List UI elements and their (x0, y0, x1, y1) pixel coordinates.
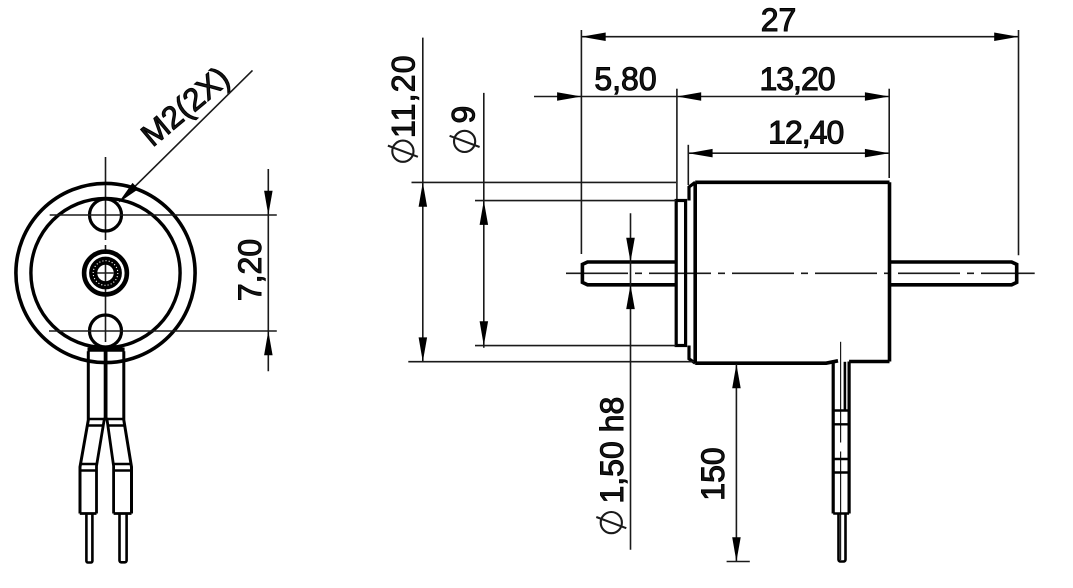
dia symbol of Ø9 (454, 131, 475, 152)
svg-text:150: 150 (695, 447, 731, 500)
dim 12,40 left arrow (688, 149, 712, 158)
dia symbol of Ø1,50 (601, 512, 622, 533)
front flange lower edge (689, 346, 695, 364)
leader arrowhead (118, 183, 138, 203)
side wires inner edge (844, 362, 847, 412)
wire joint tick bend2 lower left (80, 469, 97, 471)
wires shared inner edge (104, 348, 108, 418)
inner face circle (Ø9) (31, 198, 180, 347)
dim 27 dimension line (581, 36, 1018, 38)
motor body bottom edge left part (695, 361, 838, 363)
svg-text:M2(2X): M2(2X) (134, 59, 236, 153)
dim 150 down arrow (732, 537, 741, 561)
dim 7,20 dimension line (267, 169, 269, 371)
left wire insulation end cap (80, 512, 97, 515)
svg-text:5,80: 5,80 (594, 61, 656, 97)
dim Ø1,50 h8 leader line (630, 213, 632, 549)
side wire insulation end cap (833, 512, 849, 515)
dim 7,20 arrow down (264, 191, 273, 215)
wire joint tick bend2 right (113, 463, 132, 465)
shaft bushing annulus (93, 261, 118, 286)
right wire insulation end cap (114, 512, 132, 515)
motor body right edge (888, 182, 892, 361)
dim Ø9 down arrow (480, 321, 489, 345)
motor body top edge (695, 181, 889, 185)
left shaft outline (582, 262, 676, 285)
side wires right edge (847, 362, 850, 514)
right shaft outline (890, 262, 1017, 285)
text Ø9 (445, 106, 481, 152)
dim 5,80 left arrow (outside) (557, 92, 581, 101)
svg-text:11,20: 11,20 (386, 54, 422, 138)
dim 13,20 left arrow (677, 92, 701, 101)
top screw hole M2 (90, 199, 122, 231)
wire joint tick bend1 lower left (87, 424, 104, 426)
dim 12,40 dimension line (688, 152, 889, 154)
svg-text:7,20: 7,20 (232, 239, 268, 301)
right wire bare tip (120, 514, 127, 563)
front bushing Ø9 (676, 201, 685, 346)
side wire joint tick 1 (833, 409, 849, 411)
dim Ø9 dimension line (483, 93, 485, 348)
dim 150 up arrow (732, 364, 741, 388)
side wire thin center line lower (840, 452, 842, 561)
leader line M2(2X) (123, 70, 253, 198)
motor body left edge (693, 182, 697, 363)
wire bundle top cap (88, 348, 125, 352)
left wire outer edge upper (80, 351, 88, 513)
svg-text:1,50 h8: 1,50 h8 (594, 397, 630, 504)
hidden circle (dashed) on bushing (93, 261, 118, 286)
dim 13,20 right arrow (865, 92, 889, 101)
right wire inner edge (107, 418, 114, 514)
front view horizontal centerline tick (96, 272, 114, 274)
dim Ø9 bottom extension line (475, 345, 676, 347)
side wire joint tick 2 (833, 423, 849, 425)
dia symbol of Ø11,20 (392, 141, 413, 162)
dim 27 left arrow (581, 33, 605, 42)
dim 12,40 left extension line (687, 145, 689, 185)
text Ø11,20 (386, 54, 422, 162)
shaft boss ring (84, 252, 127, 295)
side wires thin center line (840, 342, 842, 443)
extension line x=676.9 (676, 89, 678, 199)
svg-text:27: 27 (761, 2, 797, 38)
dim Ø1,50 h8 down arrow (above shaft) (626, 238, 635, 262)
left wire bare tip (86, 514, 92, 563)
dim 150 dimension line (735, 364, 737, 562)
dim Ø9 top extension line (475, 200, 676, 202)
dim 5,80 / 13,20 shared dimension line (534, 96, 889, 98)
left wire inner edge (97, 418, 105, 514)
dim 7,20 top extension line (50, 214, 277, 216)
svg-text:12,40: 12,40 (768, 115, 843, 151)
outer body circle (Ø11,20) (16, 183, 195, 362)
dim Ø11,20 up arrow (419, 182, 428, 206)
dim 12,40 right arrow (865, 149, 889, 158)
dim 27 right extension line (1018, 30, 1020, 255)
svg-text:9: 9 (445, 106, 481, 124)
dim Ø11,20 top extension line (412, 181, 677, 183)
dim 27 left extension line (580, 30, 582, 254)
dim Ø1,50 h8 up arrow (below shaft) (626, 285, 635, 309)
dim 7,20 arrow up (264, 331, 273, 355)
right wire outer edge upper (124, 351, 132, 513)
wire joint tick bend2 lower right (114, 469, 132, 471)
side wire bare tip (839, 514, 846, 562)
wire joint tick bend2 left (80, 463, 97, 465)
svg-text:13,20: 13,20 (759, 61, 834, 97)
side view centerline (dash-dot) (566, 272, 1035, 274)
dim Ø11,20 down arrow (419, 337, 428, 361)
bottom screw hole M2 (90, 315, 122, 347)
dim 150 bottom extension line (727, 561, 750, 563)
wire joint tick bend1 (88, 418, 124, 420)
side wire joint tick 4 (833, 471, 849, 473)
front view vertical centerline (105, 157, 107, 363)
dim Ø9 up arrow (480, 201, 489, 225)
dim Ø11,20 bottom extension line (408, 361, 694, 363)
dim Ø11,20 dimension line (422, 38, 424, 363)
motor body bottom edge right part (849, 360, 889, 364)
front flange upper edge (689, 182, 695, 200)
wire joint tick bend1 lower right (107, 424, 125, 426)
text Ø1,50 h8 (594, 397, 630, 533)
dim 12,40 right extension line (shared with 13,20) (888, 89, 890, 178)
dim 27 right arrow (994, 33, 1018, 42)
side wires left edge (832, 362, 835, 514)
side wire joint tick 3 (833, 458, 849, 460)
dim 7,20 bottom extension line (49, 330, 277, 332)
